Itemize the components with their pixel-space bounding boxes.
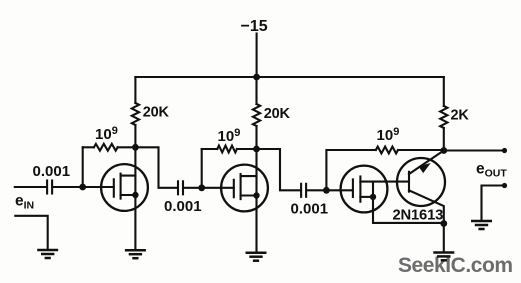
wire C2 to gate of Q2: [185, 187, 234, 189]
node gate stage3: [323, 187, 330, 194]
node gate stage1: [79, 184, 86, 191]
svg-text:0.001: 0.001: [33, 163, 71, 180]
svg-text:−15: −15: [241, 18, 268, 35]
node eOUT terminal: [502, 148, 507, 153]
node supply rail junction: [253, 74, 260, 81]
wire drain1 to C2: [135, 147, 176, 188]
wire R6 to emitter node: [443, 128, 445, 151]
node emitter-output junction: [440, 147, 447, 154]
mosfet Q1: [101, 164, 148, 211]
svg-text:eOUT: eOUT: [476, 161, 507, 180]
mosfet Q2: [221, 165, 268, 212]
wire R4 left leg to gate: [201, 149, 203, 188]
node output ground terminal dot: [502, 183, 507, 188]
svg-text:20K: 20K: [143, 105, 170, 121]
wire input lead: [15, 186, 46, 188]
resistor R3 20K: [253, 104, 260, 126]
wire R1 to drain node: [134, 125, 136, 147]
resistor R5 10^9 feedback: [326, 150, 375, 190]
node gate stage2: [198, 184, 205, 191]
svg-text:109: 109: [95, 125, 118, 143]
resistor R6 2K: [440, 106, 447, 128]
node source-collector junction: [440, 220, 447, 227]
wire R3 to drain node: [255, 126, 257, 149]
transistor Q4 2N1613: [397, 151, 445, 224]
capacitor C2 0.001: [177, 181, 179, 194]
node drain stage2: [253, 146, 260, 153]
svg-text:0.001: 0.001: [291, 201, 329, 218]
node drain stage1: [132, 144, 139, 151]
wire output ground terminal: [482, 186, 505, 220]
wire rail to R6: [443, 77, 445, 106]
resistor R4 10^9 feedback: [202, 148, 218, 150]
wire R2 left leg to gate: [82, 147, 84, 187]
wire -15 rail: [135, 76, 443, 78]
wire supply drop: [256, 34, 258, 78]
wire C1 to gate of Q1: [54, 186, 114, 188]
ground output: [471, 220, 492, 223]
wire Q2 drain-source vertical: [255, 149, 257, 251]
wire input ground terminal: [15, 216, 47, 249]
ground input: [37, 249, 58, 252]
svg-text:0.001: 0.001: [164, 198, 202, 215]
svg-text:eIN: eIN: [15, 193, 34, 212]
ground collector: [433, 251, 454, 254]
wire drain2 to C3: [257, 149, 300, 190]
svg-text:SeekIC.com: SeekIC.com: [398, 254, 513, 277]
wire C3 to gate of Q3: [308, 189, 353, 191]
wire collector to ground: [443, 224, 445, 251]
resistor R2 10^9 feedback: [83, 146, 94, 148]
svg-text:2N1613: 2N1613: [393, 208, 444, 224]
svg-text:2K: 2K: [451, 108, 470, 124]
capacitor C3 0.001: [300, 184, 302, 197]
svg-text:109: 109: [218, 127, 241, 145]
resistor R1 20K: [132, 103, 139, 125]
wire rail to R3: [255, 77, 257, 104]
mosfet Q3: [341, 166, 409, 213]
svg-text:20K: 20K: [264, 106, 291, 122]
svg-text:109: 109: [377, 126, 400, 144]
wire rail to R1: [134, 77, 136, 103]
wire eOUT lead: [444, 149, 505, 151]
ground Q1 source: [125, 249, 146, 252]
ground Q2 source: [246, 251, 267, 254]
wire Q1 drain-source vertical: [134, 147, 136, 248]
capacitor C1 0.001: [46, 181, 48, 194]
wire Q3 source to collector node: [373, 197, 444, 223]
